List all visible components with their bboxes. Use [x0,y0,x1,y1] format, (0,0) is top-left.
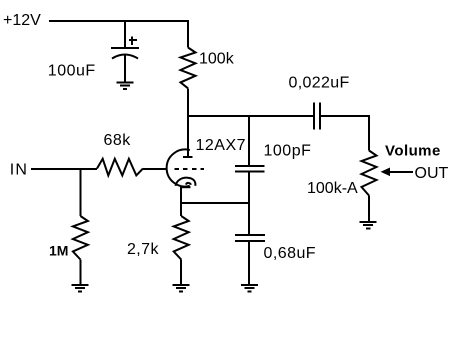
svg-text:2,7k: 2,7k [127,241,159,258]
svg-text:OUT: OUT [415,165,449,182]
resistor R1 100k [181,48,196,89]
wire 2,7k bottom lead [180,260,182,286]
ground below 0,68uF [241,285,258,291]
svg-text:1M: 1M [49,243,68,259]
svg-text:0,022uF: 0,022uF [289,74,350,91]
potentiometer VR1 100k-A [362,151,377,196]
svg-text:68k: 68k [104,132,132,149]
wire 100pF bottom lead [248,171,250,203]
capacitor C2 0,022uF [314,103,320,130]
resistor R3 1M [73,216,88,260]
wire C1 top lead [124,21,126,48]
wire input [31,168,97,170]
capacitor C3 100pF [235,166,265,171]
svg-text:Volume: Volume [385,143,441,160]
wire plate lead [187,116,189,156]
capacitor C1 polarity plus [129,37,137,45]
ground below C1 [117,82,134,88]
wire 2,7k top lead [180,203,182,216]
wiper arrow to OUT [381,168,414,177]
triode U1 grid dashes [175,168,205,170]
resistor R4 2,7k [174,216,189,260]
wire plate node horizontal [187,115,314,117]
svg-text:100uF: 100uF [48,63,96,80]
wire +12V rail [49,20,189,22]
wire C1 bottom lead [124,56,126,84]
svg-text:100k: 100k [199,51,235,68]
triode U1 envelope [167,150,190,187]
wire 1M bottom lead [79,260,81,286]
wire cathode node horizontal [180,202,250,204]
resistor R2 68k [97,159,143,176]
wire R1 top lead [187,21,189,48]
wire 100pF top lead [248,116,250,166]
ground below pot [360,222,377,228]
svg-text:+12V: +12V [3,12,41,29]
ground below 2,7k [173,285,190,291]
wire R1 bottom lead [187,88,189,116]
svg-text:0,68uF: 0,68uF [264,245,317,262]
wire 68k to grid [143,168,168,170]
svg-text:IN: IN [10,162,28,179]
wire 1M top lead [79,169,81,217]
triode U1 plate bar [183,156,193,158]
capacitor C1 100uF electrolytic [111,48,139,58]
svg-text:100k-A: 100k-A [307,180,358,197]
ground below 1M [72,285,89,291]
wire cathode lead [180,187,182,204]
svg-text:12AX7: 12AX7 [196,137,247,154]
wire C2 to pot [320,116,370,151]
wire pot bottom lead [368,196,370,223]
triode U1 cathode curl [176,178,196,188]
wire 0,68uF top lead [248,203,250,235]
svg-text:100pF: 100pF [264,143,312,160]
capacitor C4 0,68uF [235,235,265,241]
wire 0,68uF bottom lead [248,241,250,285]
